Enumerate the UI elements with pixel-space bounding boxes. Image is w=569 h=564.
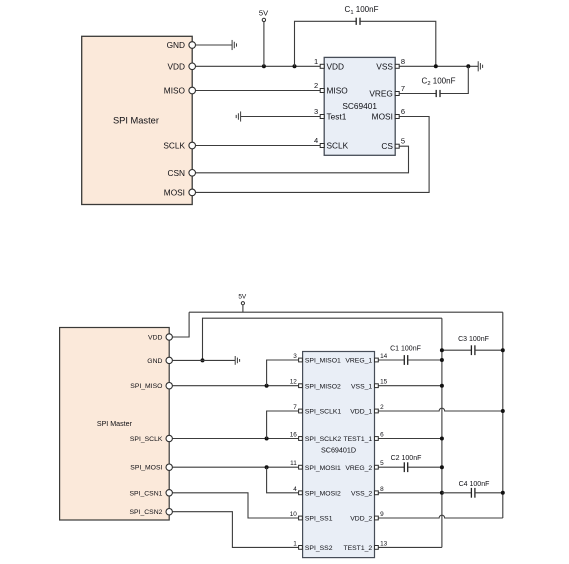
junction dot VDD_1/5V bus bbox=[501, 409, 505, 413]
pin SPI_SCLK of SPI Master (bottom) bbox=[130, 435, 173, 443]
wire VSS net (top) bbox=[399, 65, 478, 67]
pin 9 VDD_2 of SC69401D bbox=[350, 511, 384, 523]
GND rail (bottom) bbox=[203, 318, 442, 360]
wire VDD_1 to 5V bus (hops GND bus) bbox=[379, 408, 503, 411]
junction dot SPI_MOSI branch bbox=[265, 465, 269, 469]
pin 1 SPI_SS2 of SC69401D bbox=[293, 540, 332, 552]
svg-text:1: 1 bbox=[314, 57, 318, 66]
junction dot VDD / 5V stem bbox=[262, 64, 266, 68]
svg-text:SPI_SS2: SPI_SS2 bbox=[305, 545, 333, 552]
svg-text:MISO: MISO bbox=[164, 86, 186, 96]
pin MOSI of SPI Master (top) bbox=[164, 187, 196, 197]
5V bus vertical (bottom) bbox=[502, 312, 504, 518]
svg-text:15: 15 bbox=[380, 379, 388, 386]
pin SPI_MOSI of SPI Master (bottom) bbox=[130, 464, 172, 472]
GND bus vertical (bottom) bbox=[441, 318, 443, 547]
svg-text:11: 11 bbox=[290, 460, 297, 467]
junction dot C3/5V bus bbox=[501, 348, 505, 352]
svg-text:SPI_CSN2: SPI_CSN2 bbox=[130, 509, 163, 516]
junction dot C4/5V bus bbox=[501, 491, 505, 495]
pin 8 VSS_2 of SC69401D bbox=[351, 486, 384, 498]
wire SPI_MISO net bbox=[172, 385, 298, 387]
wire VDD of SPI Master to 5V rail bbox=[172, 312, 189, 337]
wire C2 to GND bus bbox=[408, 466, 442, 468]
block SPI Master (bottom) bbox=[60, 328, 170, 521]
wire branch to SPI_MISO1 pin 3 bbox=[267, 360, 299, 386]
pin 12 SPI_MISO2 of SC69401D bbox=[290, 379, 341, 391]
svg-text:8: 8 bbox=[380, 486, 384, 493]
pin GND of SPI Master (bottom) bbox=[147, 357, 172, 365]
IC U1 SC69401 (top) bbox=[324, 57, 395, 155]
junction dot C3/GND bus bbox=[440, 348, 444, 352]
pin 16 SPI_SCLK2 of SC69401D bbox=[290, 432, 342, 444]
ground symbol at Test1 bbox=[236, 111, 240, 121]
svg-text:GND: GND bbox=[167, 40, 185, 50]
pin 3 SPI_MISO1 of SC69401D bbox=[293, 353, 341, 365]
wire SPI_CSN2 to SPI_SS2 pin 1 bbox=[172, 512, 298, 548]
capacitor C4 100nF plates bbox=[471, 488, 475, 498]
pin 4 SCLK of SC69401 bbox=[314, 136, 349, 151]
svg-text:5: 5 bbox=[401, 137, 405, 146]
junction dot VDD / C1 left leg bbox=[293, 64, 297, 68]
svg-text:SPI_SS1: SPI_SS1 bbox=[305, 516, 333, 523]
value label C1 100nF (top) bbox=[345, 5, 379, 16]
capacitor C1 100nF (top) plates bbox=[356, 18, 360, 25]
wire C3 row GND bus to plates bbox=[442, 349, 471, 351]
ground symbol at VSS (top) bbox=[478, 61, 482, 71]
pin 3 Test1 of SC69401 bbox=[314, 107, 347, 122]
pin 5 CS of SC69401 bbox=[381, 137, 405, 152]
pin 6 MOSI of SC69401 bbox=[372, 107, 405, 122]
svg-text:VDD_1: VDD_1 bbox=[350, 409, 372, 416]
wire VREG_2 to C2 bbox=[379, 466, 405, 468]
wire SCLK net (top) bbox=[196, 145, 321, 147]
value label C2 100nF (bottom) bbox=[391, 455, 422, 462]
svg-text:1: 1 bbox=[293, 540, 297, 547]
svg-text:SCLK: SCLK bbox=[163, 141, 185, 151]
wire SPI_MOSI net bbox=[172, 466, 298, 468]
pin 13 TEST1_2 of SC69401D bbox=[343, 540, 387, 552]
svg-text:7: 7 bbox=[293, 404, 297, 411]
wire C1 to GND bus bbox=[408, 359, 442, 361]
pin 10 SPI_SS1 of SC69401D bbox=[290, 511, 333, 523]
svg-text:13: 13 bbox=[380, 540, 388, 547]
junction dot VSS_2/GND bus bbox=[440, 491, 444, 495]
svg-text:MOSI: MOSI bbox=[164, 187, 185, 197]
wire TEST1_1 to GND bus bbox=[379, 438, 442, 440]
pin 2 VDD_1 of SC69401D bbox=[350, 404, 384, 416]
svg-text:16: 16 bbox=[290, 432, 298, 439]
svg-text:SPI_MISO2: SPI_MISO2 bbox=[305, 383, 341, 390]
pin 11 SPI_MOSI1 of SC69401D bbox=[290, 460, 341, 472]
wire TEST1_2 to GND bus bbox=[379, 546, 442, 548]
junction dot SPI_SCLK branch bbox=[265, 437, 269, 441]
wire MOSI to MOSI pin 6 bbox=[196, 117, 430, 193]
pin VDD of SPI Master (top) bbox=[167, 61, 195, 71]
wire Test1 to ground bbox=[241, 116, 321, 118]
ground symbol at SPI Master GND bbox=[232, 40, 236, 50]
pin 8 VSS of SC69401 bbox=[376, 57, 405, 72]
wire branch to SPI_SCLK1 pin 7 bbox=[267, 411, 299, 439]
svg-text:2: 2 bbox=[314, 81, 318, 90]
svg-text:SPI Master: SPI Master bbox=[113, 116, 159, 126]
pin SPI_CSN1 of SPI Master (bottom) bbox=[130, 490, 173, 498]
capacitor C1 100nF (top) right leg wire bbox=[360, 21, 436, 66]
pin 7 VREG of SC69401 bbox=[369, 84, 405, 99]
svg-text:10: 10 bbox=[290, 511, 298, 518]
svg-text:8: 8 bbox=[401, 57, 405, 66]
pin 14 VREG_1 of SC69401D bbox=[345, 353, 387, 365]
svg-text:VSS_2: VSS_2 bbox=[351, 490, 372, 497]
svg-text:9: 9 bbox=[380, 511, 384, 518]
svg-text:VSS_1: VSS_1 bbox=[351, 383, 372, 390]
svg-text:SPI_SCLK: SPI_SCLK bbox=[130, 436, 163, 443]
svg-text:MOSI: MOSI bbox=[372, 112, 393, 122]
svg-text:VDD_2: VDD_2 bbox=[350, 516, 372, 523]
svg-text:SPI_SCLK1: SPI_SCLK1 bbox=[305, 409, 341, 416]
svg-text:TEST1_2: TEST1_2 bbox=[343, 545, 372, 552]
pin GND of SPI Master (top) bbox=[167, 40, 196, 50]
pin SCLK of SPI Master (top) bbox=[163, 141, 195, 151]
svg-text:VSS: VSS bbox=[376, 61, 393, 71]
block SPI Master (top) bbox=[82, 36, 193, 204]
wire GND of SPI Master to ground bbox=[172, 359, 235, 361]
pin 5 VREG_2 of SC69401D bbox=[345, 460, 384, 472]
capacitor C2 100nF (top) right leg wire bbox=[440, 66, 468, 93]
svg-text:VREG_1: VREG_1 bbox=[345, 358, 372, 365]
pin MISO of SPI Master (top) bbox=[164, 86, 196, 96]
svg-text:CS: CS bbox=[381, 141, 393, 151]
svg-text:VDD: VDD bbox=[327, 61, 345, 71]
svg-text:C3 100nF: C3 100nF bbox=[458, 336, 489, 343]
value label C3 100nF bbox=[458, 336, 489, 343]
junction dot GND rail riser bbox=[201, 358, 205, 362]
svg-text:5V: 5V bbox=[238, 294, 247, 301]
svg-text:4: 4 bbox=[314, 136, 318, 145]
svg-text:SPI_MOSI1: SPI_MOSI1 bbox=[305, 465, 341, 472]
svg-text:VDD: VDD bbox=[148, 335, 162, 342]
junction dot SPI_MISO branch bbox=[265, 384, 269, 388]
svg-text:5: 5 bbox=[380, 460, 384, 467]
svg-text:6: 6 bbox=[401, 107, 405, 116]
svg-text:5V: 5V bbox=[259, 8, 268, 17]
junction dot VSS / C1 right leg bbox=[434, 64, 438, 68]
pin 7 SPI_SCLK1 of SC69401D bbox=[293, 404, 341, 416]
capacitor C2 100nF (bottom) plates bbox=[404, 462, 407, 472]
wire VREG to C2 bbox=[399, 93, 436, 95]
svg-text:C1 100nF: C1 100nF bbox=[390, 346, 421, 353]
pin 6 TEST1_1 of SC69401D bbox=[343, 432, 384, 444]
junction dot VSS_1/GND bus bbox=[440, 384, 444, 388]
capacitor C1 100nF (bottom) plates bbox=[404, 355, 407, 365]
power 5V (top) bbox=[259, 8, 268, 66]
svg-text:2: 2 bbox=[380, 404, 384, 411]
svg-text:VDD: VDD bbox=[167, 61, 185, 71]
svg-text:6: 6 bbox=[380, 432, 384, 439]
svg-text:SPI_CSN1: SPI_CSN1 bbox=[130, 490, 163, 497]
wire VSS_1 to GND bus bbox=[379, 385, 442, 387]
svg-text:TEST1_1: TEST1_1 bbox=[343, 436, 372, 443]
svg-text:3: 3 bbox=[314, 107, 318, 116]
pin SPI_CSN2 of SPI Master (bottom) bbox=[130, 509, 173, 517]
svg-text:14: 14 bbox=[380, 353, 388, 360]
svg-text:7: 7 bbox=[401, 84, 405, 93]
ground symbol at SPI Master GND (bottom) bbox=[235, 356, 239, 365]
svg-text:SCLK: SCLK bbox=[327, 141, 349, 151]
5V rail (bottom) bbox=[189, 311, 503, 313]
junction dot VSS / C2 right leg bbox=[466, 64, 470, 68]
svg-text:SC69401D: SC69401D bbox=[321, 446, 356, 455]
svg-text:C2 100nF: C2 100nF bbox=[422, 76, 456, 87]
wire C4 to 5V bus bbox=[475, 492, 503, 494]
pin 2 MISO of SC69401 bbox=[314, 81, 348, 96]
svg-text:C4 100nF: C4 100nF bbox=[459, 481, 490, 488]
wire GND of SPI Master to ground bbox=[196, 44, 232, 46]
pin SPI_MISO of SPI Master (bottom) bbox=[130, 383, 172, 391]
svg-text:GND: GND bbox=[147, 358, 162, 365]
wire SPI_SCLK net bbox=[172, 438, 298, 440]
wire VREG_1 to C1 bbox=[379, 359, 405, 361]
wire MISO net (top) bbox=[196, 90, 321, 92]
wire VSS_2 to GND bus bbox=[379, 492, 442, 494]
value label C4 100nF bbox=[459, 481, 490, 488]
svg-text:SPI_MOSI2: SPI_MOSI2 bbox=[305, 490, 341, 497]
junction dot TEST1_1/GND bus bbox=[440, 437, 444, 441]
svg-text:VREG: VREG bbox=[369, 89, 393, 99]
wire CSN to CS pin 5 bbox=[196, 146, 409, 173]
IC U2 SC69401D (bottom) bbox=[303, 352, 375, 558]
wire branch to SPI_MOSI2 pin 4 bbox=[267, 467, 299, 493]
wire VDD net (SPI Master to pin 1) bbox=[196, 65, 321, 67]
svg-text:VREG_2: VREG_2 bbox=[345, 465, 372, 472]
capacitor C1 100nF (top) left leg wire bbox=[295, 21, 357, 66]
pin 4 SPI_MOSI2 of SC69401D bbox=[293, 486, 341, 498]
svg-text:MISO: MISO bbox=[327, 86, 349, 96]
pin 15 VSS_1 of SC69401D bbox=[351, 379, 388, 391]
wire VDD_2 to 5V bus (hops GND bus) bbox=[379, 515, 503, 518]
pin 1 VDD of SC69401 bbox=[314, 57, 344, 72]
svg-text:SPI_MISO1: SPI_MISO1 bbox=[305, 358, 341, 365]
svg-text:3: 3 bbox=[293, 353, 297, 360]
pin CSN of SPI Master (top) bbox=[167, 168, 195, 178]
wire C4 row GND bus to plates bbox=[442, 492, 471, 494]
junction dot C1/GND bus bbox=[440, 358, 444, 362]
svg-text:CSN: CSN bbox=[167, 168, 185, 178]
svg-text:C2 100nF: C2 100nF bbox=[391, 455, 422, 462]
junction dot C2/GND bus bbox=[440, 465, 444, 469]
wire C3 to 5V bus bbox=[475, 349, 503, 351]
svg-text:SPI_MOSI: SPI_MOSI bbox=[130, 465, 162, 472]
pin VDD of SPI Master (bottom) bbox=[148, 334, 172, 342]
svg-text:12: 12 bbox=[290, 379, 298, 386]
svg-text:SPI_MISO: SPI_MISO bbox=[130, 383, 162, 390]
svg-text:SPI_SCLK2: SPI_SCLK2 bbox=[305, 436, 341, 443]
wire SPI_CSN1 to SPI_SS1 pin 10 bbox=[172, 493, 298, 518]
capacitor C3 100nF plates bbox=[471, 345, 475, 355]
value label C2 100nF (top) bbox=[422, 76, 456, 87]
svg-text:SPI Master: SPI Master bbox=[97, 420, 133, 428]
svg-text:4: 4 bbox=[293, 486, 297, 493]
power 5V (bottom) bbox=[238, 294, 247, 313]
svg-text:SC69401: SC69401 bbox=[342, 101, 377, 111]
value label C1 100nF (bottom) bbox=[390, 346, 421, 353]
capacitor C2 100nF (top) plates bbox=[436, 90, 440, 97]
svg-text:Test1: Test1 bbox=[327, 112, 347, 122]
